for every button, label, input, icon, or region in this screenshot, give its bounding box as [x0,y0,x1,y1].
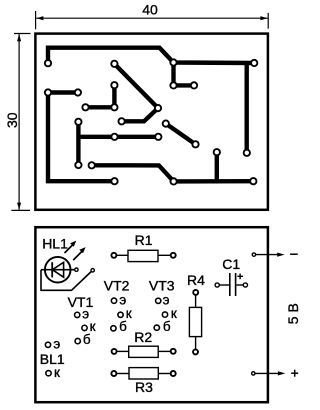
svg-text:BL1: BL1 [40,351,65,367]
pad P10 [192,141,198,147]
wire: P2 down to P4 [171,63,175,86]
svg-text:R3: R3 [135,379,153,395]
pad P19 [155,134,161,140]
pad P15 [111,178,117,184]
pad P4 [170,82,176,88]
dimension 40 (top) [36,11,269,29]
wire: P12 down, corner, right to P15 [48,93,115,182]
pad P13 [75,89,81,95]
terminal minus [252,253,255,256]
svg-text:б: б [119,319,127,334]
wire: P22 right then diagonal to P23 [92,165,174,181]
pad P23 [170,178,176,184]
svg-text:VT1: VT1 [68,294,94,310]
wire: vertical drop from top rail to pad P14 [244,63,248,153]
pad P20 [75,119,81,125]
resistor R3 [115,368,170,379]
terminal plus [252,372,255,375]
svg-text:к: к [54,365,60,380]
svg-text:э: э [53,337,60,352]
wire: P4 right to P5 [174,83,195,87]
wire: P16 down to P17 [112,85,116,107]
wire: diagonal P6 to P7 [114,64,158,108]
pad P5 [191,82,197,88]
pad P22 [89,162,95,168]
svg-text:C1: C1 [222,256,240,272]
svg-text:30: 30 [4,112,20,128]
pad P18 [82,104,88,110]
pad P21 [75,162,81,168]
pad P8 [118,118,124,124]
pad P1 [45,60,51,66]
PCB board outline (top box) [35,34,268,210]
buzzer BL1 [45,342,50,347]
wire: P12 right to P13 [48,90,78,94]
wire: T from vertical through pad to P19 [78,135,158,139]
svg-text:R1: R1 [135,232,153,248]
LED pin holes [75,268,95,272]
LED arrow 2 [73,251,82,260]
svg-text:э: э [163,293,170,308]
wire: bottom trace P23 to P24 [174,179,254,184]
pad P16 [111,82,117,88]
svg-text:5 В: 5 В [285,303,301,324]
wire: P17 left to P18 [86,105,115,109]
pad P9 [163,120,169,126]
svg-text:э: э [82,307,89,322]
svg-text:R4: R4 [187,272,205,288]
svg-text:40: 40 [142,2,158,18]
svg-text:VT2: VT2 [104,277,130,293]
component layout board outline (bottom box) [35,227,268,402]
svg-text:VT3: VT3 [149,277,175,293]
wire: top rail from pad P1 up, right, diagonal down to P2, then to P3 [48,48,254,64]
pad P12 [45,89,51,95]
svg-text:б: б [83,332,91,347]
wire: diagonal P9 to P10 [166,124,196,145]
pad Pm [111,134,117,140]
svg-text:б: б [163,319,171,334]
svg-text:к: к [171,306,177,321]
pad P3 [251,60,257,66]
pad P2 [170,59,176,65]
svg-text:R2: R2 [134,329,152,345]
wire: P7 diagonal down-left then horizontal to P8 [122,108,158,121]
pad P14 [244,150,250,156]
pad P6 [111,61,117,67]
dimension 30 (left) [11,34,30,211]
wire: P11 down to bottom trace [215,152,219,181]
pad P11 [214,149,220,155]
pads [45,59,258,184]
LED arrow 1 [65,245,74,254]
pad P24 [250,178,256,184]
wire: P20 down to P21 [76,122,80,165]
svg-text:HL1: HL1 [42,235,68,251]
LED HL1 [41,257,91,290]
pad P7 [155,105,161,111]
pad P17 [111,104,117,110]
traces [48,48,254,182]
